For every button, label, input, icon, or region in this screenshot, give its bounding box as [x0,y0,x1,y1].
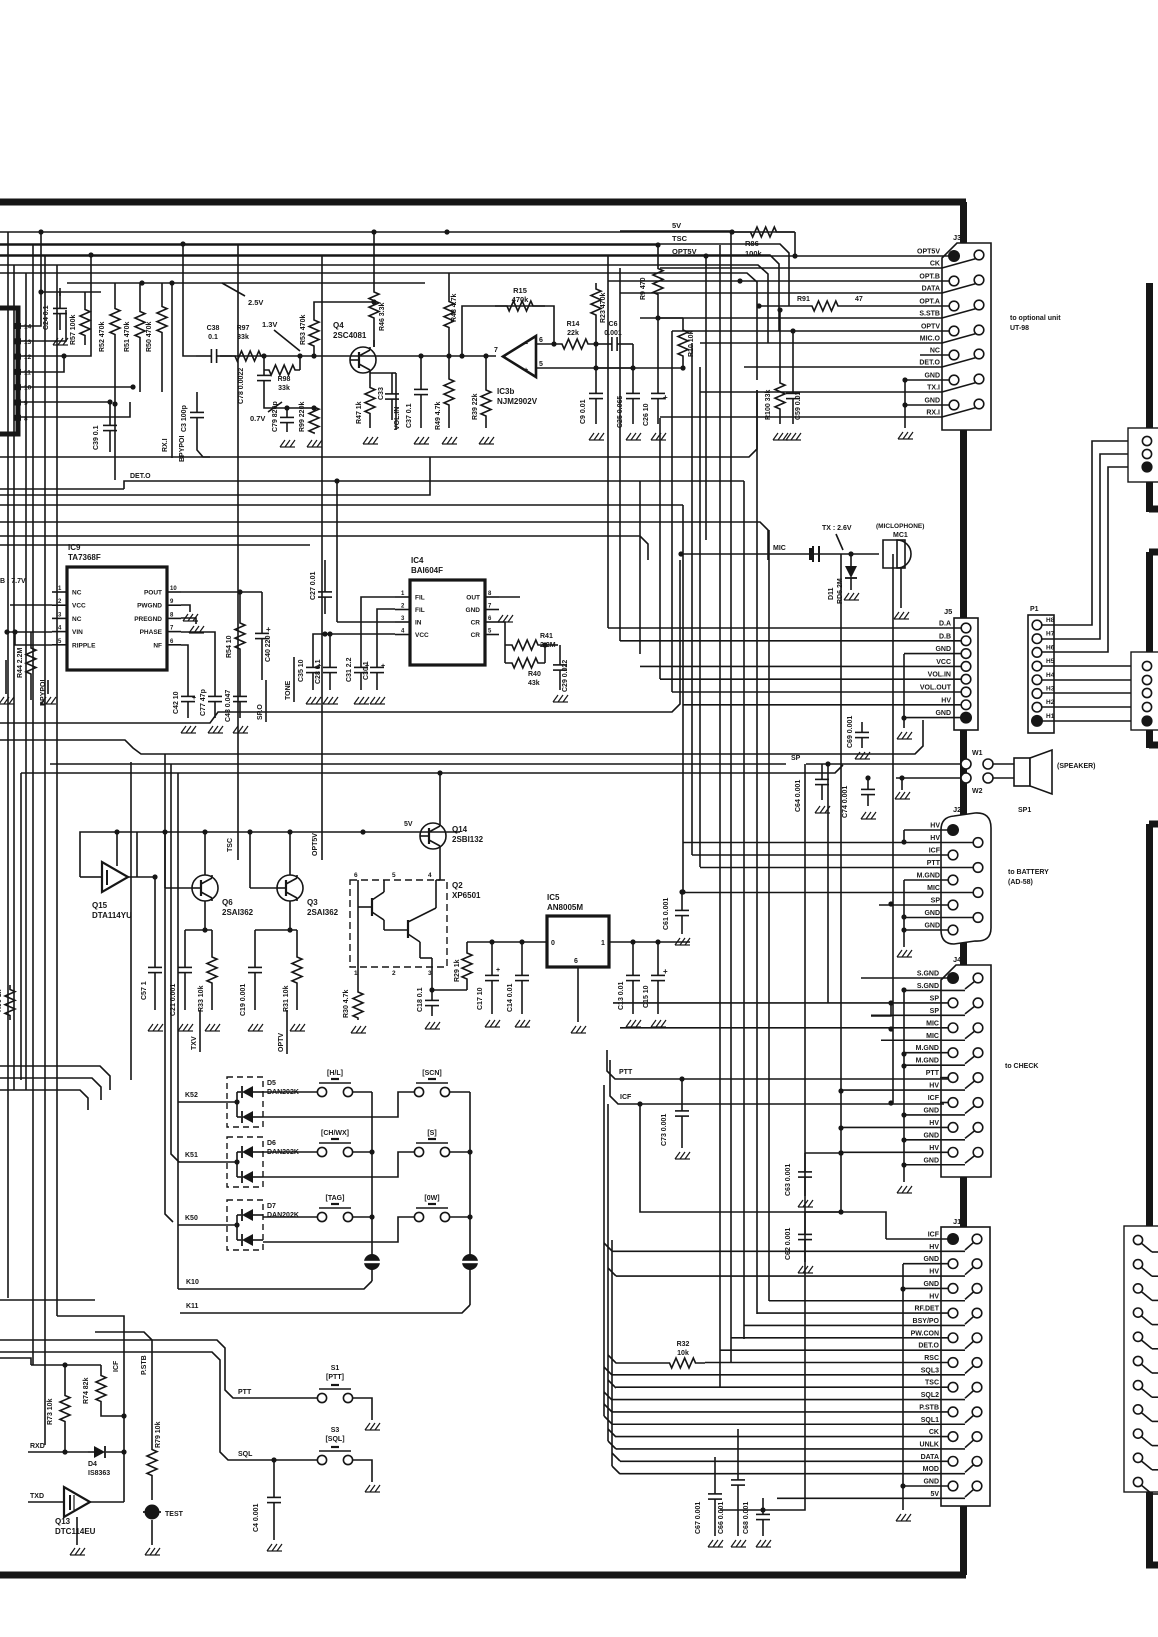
svg-text:PREGND: PREGND [134,616,162,623]
resistor R52 470k [110,283,120,360]
capacitor C9 0.01 [595,368,597,393]
svg-text:C62 0.001: C62 0.001 [785,1228,792,1260]
svg-text:C13 0.01: C13 0.01 [618,981,625,1010]
svg-text:ICF: ICF [928,1095,940,1102]
capacitor C42 10 [187,680,189,696]
wire y283 rail [67,282,425,284]
svg-text:H2: H2 [1046,699,1055,706]
svg-text:D11: D11 [828,587,835,600]
wire left horiz y1090 [0,1090,88,1110]
connector J2 body [941,813,991,944]
svg-text:33k: 33k [237,334,249,341]
svg-text:IC3b: IC3b [497,387,514,396]
node R52 bottom [114,360,116,480]
resistor R97 33k [232,351,264,361]
diode D6 top [242,1146,253,1158]
svg-text:C17 10: C17 10 [477,987,484,1010]
svg-text:0.1: 0.1 [208,334,218,341]
svg-text:VCC: VCC [936,659,951,666]
connector J3 body [942,243,991,430]
connector J4 pins [947,972,959,984]
capacitor C38 0.1 [196,355,211,357]
capacitor C37 0.1 [420,356,422,389]
wire K10 rail [178,1281,372,1289]
switch S-CHWX [317,1147,326,1156]
wire C24/R57 top [41,291,101,293]
capacitor C43 0.047 [239,680,241,696]
svg-text:GND: GND [923,1107,939,1114]
wire J3 feeds [706,255,949,257]
wire J3 gnd bus [904,380,906,428]
resistor R31 10k [292,930,302,1010]
svg-text:VOL.OUT: VOL.OUT [920,685,952,692]
wire D5 top to HL [263,1091,317,1093]
svg-text:GND: GND [924,373,940,380]
svg-text:1.3V: 1.3V [262,320,277,329]
svg-text:R100 33k: R100 33k [765,390,772,420]
svg-text:10: 10 [170,586,177,592]
connector X1 body [1128,428,1158,482]
wire IC3b out [536,343,554,345]
svg-text:+: + [663,967,668,976]
svg-text:NJM2902V: NJM2902V [497,397,538,406]
svg-text:CK: CK [929,1429,939,1436]
svg-text:DET.O: DET.O [919,360,940,367]
resistor R33 10k [207,930,217,1010]
svg-text:K11: K11 [186,1303,199,1310]
svg-text:[S]: [S] [427,1130,436,1137]
connector J1 pins [947,1233,959,1245]
svg-text:DTC114EU: DTC114EU [55,1527,96,1536]
transistor Q4 2SC4081 [350,347,376,373]
svg-text:R74 82k: R74 82k [83,1377,90,1404]
node DET.O vertical [336,481,338,622]
resistor R54 10 [235,592,245,680]
svg-text:2.5V: 2.5V [248,298,263,307]
wire q13 emitter [76,1517,78,1545]
svg-text:HV: HV [929,1244,939,1251]
switch S3 SQL [317,1455,326,1464]
wire col K11 [450,1091,470,1093]
wire IC4 pin2 feed [377,609,395,650]
wire IC9 pin2 left [10,604,52,606]
ground near C74 [901,778,903,790]
svg-text:C15 10: C15 10 [643,985,650,1008]
svg-text:OPT5V: OPT5V [312,833,319,856]
svg-text:HV: HV [930,835,940,842]
resistor R51 470k [135,283,145,366]
connector P1 body [1028,615,1054,733]
svg-text:C66 0.001: C66 0.001 [718,1502,725,1534]
wire Q2-IC5 link [432,989,467,991]
wire DET.O [124,481,744,489]
svg-text:+: + [524,367,528,374]
svg-text:OPT.B: OPT.B [919,274,940,281]
svg-text:P.STB: P.STB [919,1404,939,1411]
svg-text:C57 1: C57 1 [141,981,148,1000]
svg-text:12: 12 [24,354,32,361]
svg-text:PTT: PTT [238,1389,252,1396]
svg-text:SP1: SP1 [1018,807,1031,814]
wire mid y773 [21,765,843,773]
node bus junction dots [38,229,43,234]
wire POUT [181,591,262,593]
resistor R98 33k [264,365,300,375]
wire J5 gnd bus [903,654,905,718]
node R50 bottom [161,356,163,392]
svg-text:SP: SP [930,1008,940,1015]
svg-text:OPTV: OPTV [278,1033,285,1052]
svg-text:+: + [266,625,271,634]
svg-text:OPT5V: OPT5V [672,247,697,256]
svg-text:TXD: TXD [30,1493,44,1500]
svg-text:HV: HV [930,823,940,830]
svg-text:4: 4 [428,872,432,879]
svg-text:D4: D4 [88,1461,97,1468]
svg-text:SQL: SQL [238,1451,253,1458]
svg-text:C19 0.001: C19 0.001 [240,984,247,1016]
wire pstb vert [151,1340,153,1425]
svg-text:to BATTERY: to BATTERY [1008,869,1049,876]
IC9 TA7368F body [67,567,167,670]
svg-text:MIC: MIC [926,1033,939,1040]
resistor R53 470k [309,310,319,356]
capacitor C68 0.001 [762,1498,764,1514]
sheet border bottom edge [0,1572,966,1579]
svg-text:IC5: IC5 [547,893,560,902]
IC partial (left edge) body [0,308,18,434]
svg-text:2SBI132: 2SBI132 [452,835,484,844]
svg-text:OPTV: OPTV [921,324,940,331]
svg-text:+: + [381,663,385,670]
wire 5V row y832 [80,832,460,840]
wire y505 [0,504,683,506]
svg-text:TEST: TEST [165,1511,184,1518]
svg-text:VCC: VCC [72,603,86,610]
wire Q6 emitters [165,887,192,889]
svg-text:XP6501: XP6501 [452,891,481,900]
node J3 feed dots [756,303,761,308]
wire R86 right [794,232,796,256]
resistor R40 43k [505,658,545,668]
svg-text:P.STB: P.STB [141,1355,148,1375]
svg-text:OPT.A: OPT.A [919,299,940,306]
svg-text:GND: GND [923,1479,939,1486]
microphone MC1 [883,540,911,568]
capacitor C24 0.1 [59,292,61,308]
resistor R30 4.7k [353,990,363,1020]
svg-text:R73 10k: R73 10k [47,1398,54,1425]
connector X3 pins [1133,1235,1142,1244]
svg-text:ICF: ICF [113,1360,120,1372]
svg-text:CR: CR [471,632,481,639]
svg-text:C29 0.022: C29 0.022 [562,660,569,692]
diode D4 1SS363 [88,1451,94,1453]
resistor R44 2.2M [26,632,36,690]
svg-text:SP: SP [931,898,941,905]
svg-text:33k: 33k [278,385,290,392]
wire y495 [0,457,430,495]
svg-text:GND: GND [935,710,951,717]
wire mid y754 [0,720,923,754]
wire IC pin14 to bus [21,232,41,326]
svg-text:C27 0.01: C27 0.01 [310,571,317,600]
svg-text:FIL: FIL [415,607,425,614]
svg-text:R53 470k: R53 470k [300,315,307,345]
wire R44 bottom [30,690,32,700]
svg-text:DAN202K: DAN202K [267,1212,299,1219]
wire D7 top to TAG [263,1216,317,1218]
svg-text:C78 0.0022: C78 0.0022 [238,368,245,404]
svg-text:GND: GND [924,910,940,917]
wire PTT rail [607,1050,948,1079]
svg-text:+: + [192,695,196,702]
wire vbundle x640 [639,481,641,654]
svg-text:5V: 5V [404,821,413,828]
resistor R47 1k [365,373,375,428]
resistor R15 470k [495,301,545,311]
svg-text:VOL.IN: VOL.IN [394,407,401,430]
node J2 SP dot [888,901,893,906]
svg-text:UNLK: UNLK [920,1441,939,1448]
capacitor C19 0.001 [254,930,256,967]
wire J2 feeds [904,829,953,831]
wire IC4 pin3 feed [337,621,395,623]
capacitor C63 0.001 [804,1153,806,1172]
svg-text:K52: K52 [185,1092,198,1099]
svg-text:S.STB: S.STB [919,311,940,318]
svg-text:C30 1: C30 1 [363,661,370,680]
wire BYPOI vertical [197,438,210,457]
node J4 left dots [888,1000,893,1005]
wire opamp input rail [449,355,496,357]
svg-text:POUT: POUT [144,590,162,597]
resistor R73 10k [60,1365,70,1452]
svg-text:IN: IN [415,620,422,627]
node K11 pad [462,1254,478,1270]
wire IC9 pin4 left [7,631,52,633]
wire vbundle x805 [804,764,806,1461]
wire 5v rail bottom [720,1461,805,1510]
transistor Q6 2SA1362 [192,875,218,901]
transistor Q2b [407,920,409,938]
resistor R49 4.7k [444,356,454,428]
svg-text:D.B: D.B [939,633,951,640]
wire y545 [0,544,310,546]
svg-text:22k: 22k [567,330,579,337]
svg-text:GND: GND [935,646,951,653]
wire S1 gnd [353,1398,372,1420]
svg-text:AN8005M: AN8005M [547,903,583,912]
switch S-10W [414,1212,423,1221]
svg-text:R47 1k: R47 1k [356,401,363,424]
svg-text:PW.CON: PW.CON [911,1330,939,1337]
svg-text:C69 0.001: C69 0.001 [847,716,854,748]
svg-text:Q14: Q14 [452,825,468,834]
svg-text:C79 820p: C79 820p [272,401,279,432]
svg-text:R14: R14 [567,321,580,328]
svg-text:43k: 43k [528,680,540,687]
svg-text:C31 2.2: C31 2.2 [346,657,353,682]
connector J3 pins [948,250,960,262]
diode D5 DAN202K dashed box [227,1077,263,1127]
svg-text:[H/L]: [H/L] [327,1070,343,1077]
wire d4-icf vert [123,1416,125,1502]
svg-text:DATA: DATA [922,286,940,293]
wire C38 left [183,244,196,356]
svg-text:R86: R86 [745,239,759,248]
svg-text:D.A: D.A [939,621,951,628]
wire D7 bot to 10W [263,1217,414,1242]
connector X3 body [1124,1226,1158,1492]
ground IC9 left a [5,660,7,694]
wire Q15 connections [79,862,81,877]
svg-text:OUT: OUT [466,595,480,602]
svg-text:GND: GND [923,1132,939,1139]
svg-text:NC: NC [930,348,940,355]
sheet2 border segment a [1146,283,1153,428]
wire IC4 gnd7 [498,615,503,622]
svg-text:D5: D5 [267,1080,276,1087]
svg-text:MIC: MIC [773,545,786,552]
svg-text:PTT: PTT [619,1069,633,1076]
wire IC4 out [499,596,520,598]
svg-text:S1: S1 [331,1365,340,1372]
svg-text:−: − [524,341,528,348]
svg-text:R30 4.7k: R30 4.7k [343,989,350,1018]
svg-text:C6: C6 [609,321,618,328]
svg-text:(MICLOPHONE): (MICLOPHONE) [876,523,924,530]
svg-text:TSC: TSC [672,234,688,243]
wire Q4 collector [373,340,375,347]
svg-text:NC: NC [72,616,82,623]
svg-text:W2: W2 [972,788,983,795]
IC5 AN8005M body [547,916,609,967]
resistor R99 220k [309,407,319,433]
wire vbundle x769 [768,530,770,1301]
wire vbundle x731 [730,232,732,1363]
IC partial pins 14-8 [14,323,21,329]
svg-text:TSC: TSC [925,1380,939,1387]
switch S1 PTT [317,1393,326,1402]
svg-text:MC1: MC1 [893,532,908,539]
svg-text:C14 0.01: C14 0.01 [507,983,514,1012]
wire q13 collector [90,1501,124,1503]
connector X2 body [1131,652,1158,730]
resistor R29 1k [462,942,472,990]
capacitor C77 47p [214,680,216,696]
svg-text:[CH/WX]: [CH/WX] [321,1130,349,1137]
svg-text:HV: HV [929,1083,939,1090]
svg-text:14: 14 [24,324,32,331]
wire IC pin12 [21,255,91,356]
svg-text:5: 5 [392,872,396,879]
wire bus B1 [0,231,794,233]
sheet2 border segment f [1146,1492,1153,1568]
diode D7 bottom [242,1234,253,1246]
sheet2 border segment c [1149,549,1158,556]
wire J1 feeds [886,1238,948,1240]
svg-text:13: 13 [24,339,32,346]
svg-text:R48 4.7k: R48 4.7k [451,293,458,322]
svg-text:UT-98: UT-98 [1010,325,1029,332]
wire CR6 stub [499,622,505,663]
wire left horiz y1080 [0,1078,101,1100]
wire vbundle x700 [699,367,701,867]
svg-text:R40: R40 [528,671,541,678]
svg-text:R91: R91 [797,296,810,303]
svg-text:DET.O: DET.O [130,473,151,480]
svg-text:[SQL]: [SQL] [325,1436,344,1443]
capacitor C59 0.01 [792,368,794,393]
wire Q3 base up [289,832,291,875]
wire C78 bottom [264,400,300,408]
svg-text:Q15: Q15 [92,901,108,910]
svg-text:K50: K50 [185,1215,198,1222]
svg-text:11: 11 [24,369,31,376]
wire J1 riser x612 [611,1240,613,1466]
svg-text:C4 0.001: C4 0.001 [253,1503,260,1532]
svg-text:DATA: DATA [921,1454,939,1461]
wire vbundle x828 [827,764,829,1003]
svg-text:J5: J5 [944,607,952,616]
switch S-HL [317,1087,326,1096]
switch S-SCN [414,1087,423,1096]
connector J5 pins [961,623,971,633]
svg-text:HV: HV [929,1145,939,1152]
wire R53 top [314,302,374,310]
svg-text:[0W]: [0W] [424,1195,439,1202]
ground IC9 left b [47,680,49,694]
wire col K10 [353,1091,372,1093]
wire D6 common [236,1152,238,1177]
svg-text:C73 0.001: C73 0.001 [661,1114,668,1146]
wire K51 [178,1161,237,1163]
capacitor C61 0.001 [681,892,683,910]
diode D5 top [242,1086,253,1098]
diode D6 DAN202K dashed box [227,1137,263,1187]
svg-text:10: 10 [24,385,32,392]
svg-text:C68 0.001: C68 0.001 [743,1502,750,1534]
svg-text:R79 10k: R79 10k [155,1421,162,1448]
svg-text:[SCN]: [SCN] [422,1070,441,1077]
resistor R48 4.7k [444,273,454,356]
svg-text:C38: C38 [207,325,220,332]
capacitor C17 10 [491,942,493,975]
svg-text:J1: J1 [953,1217,961,1226]
svg-text:C28 0.1: C28 0.1 [315,659,322,684]
capacitor C4 0.001 [273,1460,275,1497]
wire H8 route [1042,441,1140,625]
svg-text:RXD: RXD [30,1443,45,1450]
svg-text:C43 0.047: C43 0.047 [225,690,232,722]
svg-text:MIC: MIC [927,885,940,892]
svg-text:SQL2: SQL2 [921,1392,939,1399]
svg-text:J2: J2 [953,805,961,814]
svg-text:M.GND: M.GND [916,1045,939,1052]
wire y536 [0,536,648,560]
capacitor C30 1 [376,650,378,667]
svg-text:HV: HV [929,1120,939,1127]
svg-text:Q4: Q4 [333,321,344,330]
resistor R23 470k [591,283,601,330]
svg-text:ICF: ICF [929,848,941,855]
svg-text:VIN: VIN [72,629,83,636]
wire R91 resistor 47 [757,305,800,307]
switch S-TAG [317,1212,326,1221]
wire SQL switch rail [0,1352,317,1460]
svg-text:SQL3: SQL3 [921,1367,939,1374]
